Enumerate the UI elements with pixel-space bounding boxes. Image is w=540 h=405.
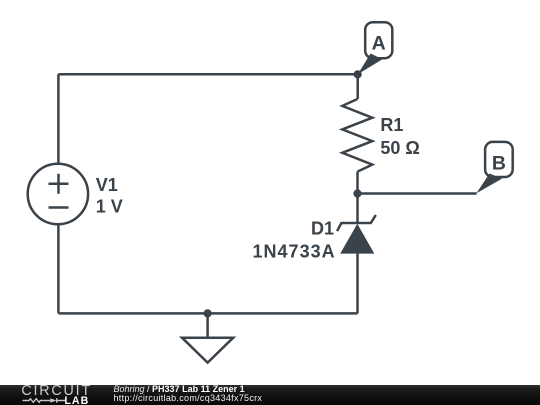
node A flag box [365, 22, 392, 58]
svg-text:A: A [372, 33, 386, 55]
wire top horizontal [58, 73, 357, 76]
node B flag box [485, 142, 513, 177]
ground stem [206, 313, 209, 337]
logo schematic glyph [18, 395, 70, 405]
node B flag pointer [476, 174, 502, 194]
resistor R1 [342, 99, 372, 172]
svg-text:V1: V1 [96, 175, 118, 195]
svg-text:1 V: 1 V [96, 197, 123, 217]
junction dot node B [353, 189, 361, 197]
svg-text:1N4733A: 1N4733A [253, 241, 336, 261]
junction dot node A [354, 70, 362, 78]
diode D1 zener cathode bar [337, 215, 376, 231]
logo LAB text [64, 395, 89, 405]
wire resistor bottom lead [356, 172, 359, 223]
footer url line [114, 393, 263, 403]
wire node B horizontal [358, 192, 477, 195]
node A flag pointer [358, 54, 383, 75]
wire bottom horizontal [58, 312, 357, 315]
wire diode bottom lead [356, 254, 359, 314]
svg-text:R1: R1 [380, 115, 403, 135]
wire right vertical top lead [356, 74, 359, 99]
wire left vertical lower [57, 224, 60, 313]
V1 minus sign [49, 206, 69, 209]
svg-text:50 Ω: 50 Ω [380, 138, 419, 158]
wire left vertical upper [57, 74, 60, 164]
footer bar [0, 385, 540, 405]
voltage source V1 circle [28, 164, 88, 224]
ground symbol [182, 338, 233, 363]
junction dot ground [204, 309, 212, 317]
logo CIRCUIT text [21, 383, 92, 399]
diode D1 triangle [340, 224, 374, 254]
svg-text:B: B [492, 153, 506, 175]
V1 plus sign [49, 174, 69, 194]
svg-text:D1: D1 [311, 219, 334, 239]
footer title line [114, 384, 245, 394]
